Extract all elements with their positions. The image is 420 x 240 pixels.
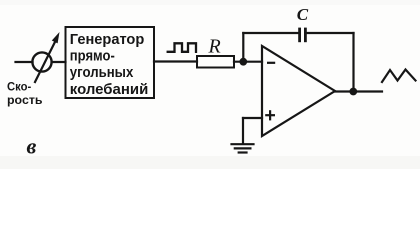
op-amp plus sign xyxy=(265,110,275,120)
wire: left input lead xyxy=(16,61,33,63)
triangle-wave symbol xyxy=(382,70,416,83)
svg-text:C: C xyxy=(297,5,309,24)
generator box G1 xyxy=(66,27,155,98)
op-amp minus sign xyxy=(267,62,275,64)
wire: non-inverting input horizontal xyxy=(243,117,262,119)
wire: generator to resistor xyxy=(154,60,197,62)
svg-text:в: в xyxy=(27,134,37,159)
svg-text:рость: рость xyxy=(7,93,43,107)
capacitor C plates xyxy=(298,28,301,43)
node A (summing junction dot) xyxy=(239,58,247,66)
wire: feedback top left segment xyxy=(243,32,298,34)
generator box text xyxy=(70,32,149,98)
svg-text:Генератор: Генератор xyxy=(70,32,145,48)
resistor R xyxy=(197,56,234,68)
scan background band xyxy=(0,156,420,169)
wire: feedback top right segment xyxy=(307,32,354,34)
wire: resistor to inverting input xyxy=(234,61,262,63)
svg-text:Ско-: Ско- xyxy=(7,80,31,94)
sensor arrow shaft xyxy=(35,43,55,83)
wire: output xyxy=(335,90,382,92)
square-wave symbol xyxy=(168,43,196,52)
sensor B1 (speed transducer circle) xyxy=(32,52,51,71)
svg-text:угольных: угольных xyxy=(70,65,134,81)
sensor arrowhead xyxy=(52,32,60,43)
wire: non-inverting input vertical to ground xyxy=(242,118,244,144)
svg-text:прямо-: прямо- xyxy=(70,49,115,65)
op-amp U1 triangle xyxy=(262,46,335,136)
ground xyxy=(232,143,254,145)
svg-text:R: R xyxy=(208,35,221,57)
wire: feedback right vertical xyxy=(352,33,354,92)
label Скорость xyxy=(7,80,43,107)
svg-text:колебаний: колебаний xyxy=(70,82,149,98)
wire: sensor to generator xyxy=(52,61,66,63)
wire: feedback left vertical xyxy=(242,33,244,62)
node B (output junction dot) xyxy=(349,88,357,96)
